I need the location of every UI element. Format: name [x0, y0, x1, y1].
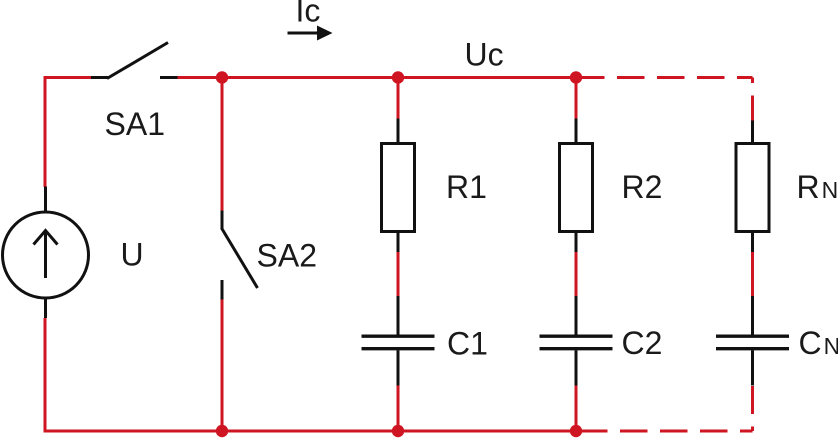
label RN: [797, 169, 838, 205]
node junction bottom C2: [570, 425, 582, 437]
wire: R1 branch red segments: [397, 78, 400, 432]
node junction top R1: [392, 71, 404, 83]
wire: SA2 branch upper red segment: [221, 78, 224, 211]
resistor R2: [560, 119, 593, 253]
label R2: [622, 169, 663, 205]
label C1: [447, 326, 488, 362]
resistor RN: [736, 121, 769, 253]
label R1: [446, 169, 487, 205]
svg-text:C1: C1: [447, 326, 488, 362]
switch SA1: [91, 43, 178, 79]
wire: left loop from SA1 left contact down to source top lead: [45, 78, 91, 188]
svg-text:CN: CN: [799, 325, 838, 361]
capacitor C2: [540, 296, 613, 386]
label Ic: [296, 0, 321, 29]
wire: top bus solid from SA1 right contact to R2 node: [178, 76, 578, 79]
wire: SA2 branch lower red segment: [221, 300, 224, 432]
wire: top bus dashed from R2 node to RN branch, turning down: [577, 78, 753, 121]
label C2: [622, 325, 663, 361]
label SA2: [257, 238, 317, 274]
svg-text:Ic: Ic: [296, 0, 321, 29]
node junction top SA2: [216, 71, 228, 83]
wire: RN branch middle red segment: [751, 252, 754, 296]
svg-text:U: U: [121, 237, 144, 273]
switch SA2: [222, 211, 258, 300]
svg-text:R2: R2: [622, 169, 663, 205]
label SA1: [105, 106, 165, 142]
svg-text:R1: R1: [446, 169, 487, 205]
label U: [121, 237, 144, 273]
svg-text:RN: RN: [797, 169, 838, 205]
node junction bottom C1: [392, 425, 404, 437]
node junction top R2: [570, 71, 582, 83]
label Uc: [465, 37, 504, 73]
svg-text:SA1: SA1: [105, 106, 165, 142]
svg-text:SA2: SA2: [257, 238, 317, 274]
capacitor CN: [716, 296, 789, 386]
capacitor C1: [362, 296, 435, 386]
svg-text:C2: C2: [622, 325, 663, 361]
label CN: [799, 325, 838, 361]
svg-text:Uc: Uc: [465, 37, 504, 73]
current arrow Ic: [288, 26, 333, 41]
node junction bottom SA2: [216, 425, 228, 437]
wire: R2 branch red segments: [575, 78, 578, 432]
source U (current source circle with up arrow): [3, 187, 89, 319]
wire: bottom bus dashed from CN branch corner to R2 node: [580, 386, 753, 432]
resistor R1: [382, 119, 415, 253]
wire: bottom bus solid from source bottom to R2 node: [45, 318, 580, 431]
